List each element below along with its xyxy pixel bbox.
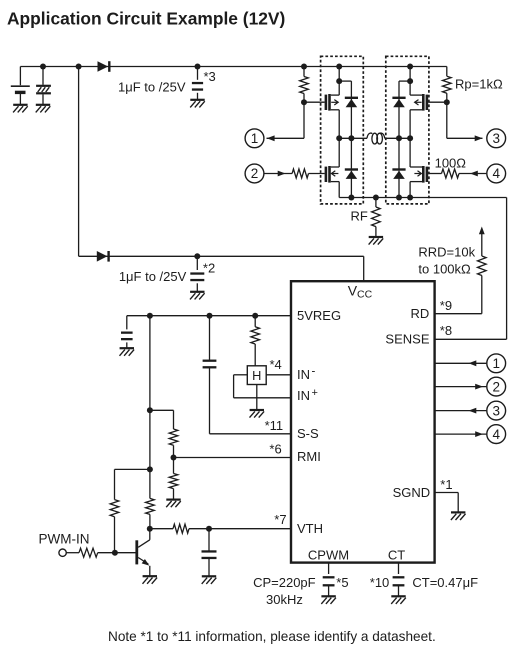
svg-text:4: 4	[492, 166, 500, 181]
svg-text:*7: *7	[274, 512, 286, 527]
svg-text:5VREG: 5VREG	[297, 308, 341, 323]
svg-text:RRD=10k: RRD=10k	[418, 245, 475, 260]
svg-text:*11: *11	[265, 418, 284, 433]
svg-text:*1: *1	[440, 477, 452, 492]
svg-text:CPWM: CPWM	[308, 548, 349, 563]
svg-text:RF: RF	[351, 209, 368, 224]
svg-text:IN: IN	[297, 388, 310, 403]
svg-text:IN: IN	[297, 367, 310, 382]
svg-text:*10: *10	[370, 575, 390, 590]
svg-text:H: H	[252, 368, 261, 383]
svg-text:*5: *5	[336, 575, 348, 590]
svg-text:*9: *9	[440, 298, 452, 313]
svg-text:CC: CC	[357, 289, 373, 301]
svg-text:Application Circuit Example (1: Application Circuit Example (12V)	[7, 9, 285, 29]
svg-text:30kHz: 30kHz	[266, 592, 303, 607]
svg-text:VTH: VTH	[297, 521, 323, 536]
svg-text:CT=0.47μF: CT=0.47μF	[412, 575, 478, 590]
svg-text:to 100kΩ: to 100kΩ	[418, 261, 471, 276]
svg-text:+: +	[312, 387, 318, 399]
svg-text:4: 4	[492, 427, 500, 442]
svg-text:1μF to /25V: 1μF to /25V	[119, 269, 187, 284]
svg-text:Note *1 to *11 information, pl: Note *1 to *11 information, please ident…	[108, 629, 436, 644]
svg-text:*8: *8	[440, 323, 452, 338]
svg-text:PWM-IN: PWM-IN	[39, 531, 90, 546]
svg-text:CP=220pF: CP=220pF	[253, 575, 316, 590]
svg-text:-: -	[312, 366, 316, 378]
svg-text:3: 3	[492, 403, 500, 418]
svg-text:S-S: S-S	[297, 426, 319, 441]
svg-text:1: 1	[492, 356, 500, 371]
svg-text:CT: CT	[388, 548, 405, 563]
svg-text:2: 2	[251, 166, 259, 181]
svg-text:Rp=1kΩ: Rp=1kΩ	[455, 77, 503, 92]
svg-text:*6: *6	[269, 442, 281, 457]
svg-text:*2: *2	[203, 261, 215, 276]
svg-text:RD: RD	[411, 306, 430, 321]
svg-text:1: 1	[251, 131, 259, 146]
svg-text:SGND: SGND	[393, 485, 431, 500]
svg-text:*3: *3	[204, 69, 216, 84]
svg-text:RMI: RMI	[297, 449, 321, 464]
svg-text:*4: *4	[270, 357, 282, 372]
svg-text:100Ω: 100Ω	[435, 155, 467, 170]
svg-text:1μF to /25V: 1μF to /25V	[118, 80, 186, 95]
svg-text:SENSE: SENSE	[385, 332, 429, 347]
svg-text:3: 3	[492, 131, 500, 146]
svg-text:2: 2	[492, 379, 500, 394]
